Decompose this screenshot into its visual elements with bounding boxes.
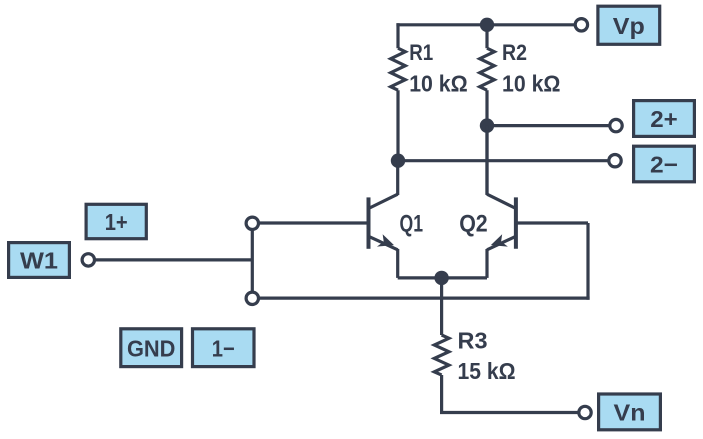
wire: left vertical connector between 1+ and 1- terminals: [251, 231, 254, 291]
svg-text:2−: 2−: [650, 152, 678, 178]
wire: Q2 base lead: [516, 221, 588, 224]
node: junction dot R1/2-: [391, 154, 405, 168]
terminal circle 2+: [610, 119, 622, 131]
terminal circle Vn: [579, 406, 591, 418]
terminal box 1-: [193, 329, 255, 367]
terminal circle W1: [82, 254, 94, 266]
terminal circle 1- (left vertical bottom): [246, 292, 258, 304]
wire: R3 bottom to Vn terminal: [440, 411, 578, 414]
svg-text:R1: R1: [409, 40, 433, 65]
svg-text:Vn: Vn: [614, 400, 646, 426]
terminal box GND: [121, 329, 182, 367]
resistor R1: [391, 23, 406, 161]
wire: 2- tap from R1 bottom junction to 2- terminal: [398, 159, 608, 162]
terminal circle 1+ (left vertical top): [246, 217, 258, 229]
wire: common emitter rail: [398, 276, 487, 279]
wire: R2 bottom to Q2 collector: [485, 126, 488, 195]
transistor Q1: [369, 161, 398, 278]
resistor R3: [434, 278, 449, 413]
node: junction dot common emitters: [434, 271, 448, 285]
svg-text:GND: GND: [127, 335, 176, 361]
wire: right vertical from Q2 base down to bottom rail: [586, 223, 589, 300]
wire: W1 lead: [96, 258, 253, 261]
transistor Q2: [487, 126, 516, 278]
svg-text:Vp: Vp: [613, 13, 645, 39]
wire: 2+ tap from R2 bottom to 2+ terminal: [487, 124, 609, 127]
resistor R2: [480, 25, 495, 126]
wire: bottom rail (1- net): [259, 297, 589, 300]
svg-text:10 kΩ: 10 kΩ: [502, 71, 561, 97]
terminal circle Vp: [575, 19, 587, 31]
terminal circle 2-: [609, 155, 621, 167]
svg-text:15 kΩ: 15 kΩ: [458, 358, 516, 384]
wire: top rail from R1 corner to Vp terminal: [396, 23, 574, 26]
terminal box 1+: [86, 204, 146, 238]
terminal box Vp: [598, 6, 660, 44]
terminal box 2+: [634, 101, 695, 137]
svg-text:W1: W1: [20, 248, 58, 274]
wire: Q1 base lead: [254, 221, 369, 224]
svg-text:Q1: Q1: [400, 211, 424, 238]
terminal box W1: [9, 243, 70, 278]
svg-text:2+: 2+: [650, 106, 678, 132]
svg-text:1−: 1−: [212, 335, 235, 361]
node: junction dot top rail/R2: [480, 18, 494, 32]
svg-text:R3: R3: [458, 328, 488, 354]
svg-text:R2: R2: [502, 40, 527, 65]
svg-text:Q2: Q2: [459, 211, 488, 238]
terminal box Vn: [599, 394, 661, 430]
svg-text:10 kΩ: 10 kΩ: [409, 71, 468, 97]
terminal box 2-: [634, 146, 695, 182]
node: junction dot R2/2+: [480, 118, 494, 132]
svg-text:1+: 1+: [105, 209, 128, 235]
